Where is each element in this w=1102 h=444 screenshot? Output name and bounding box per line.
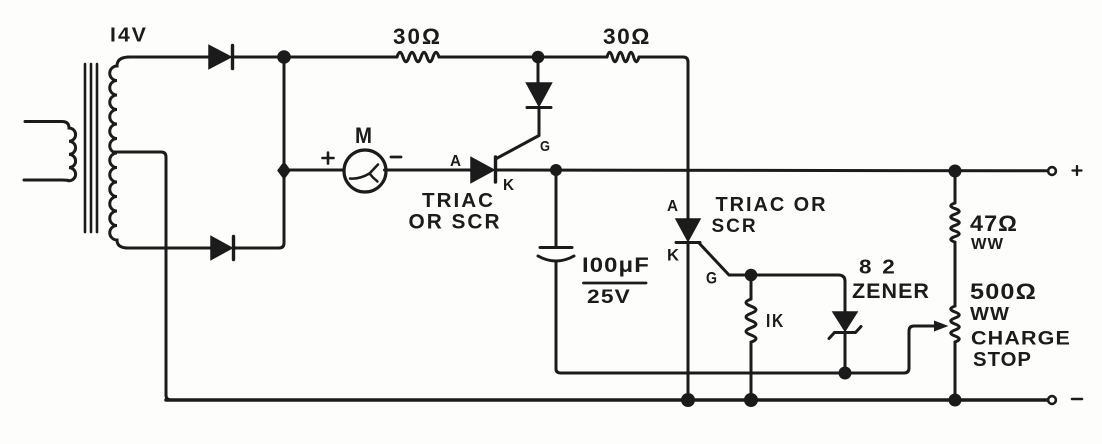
label G (SCR1 gate): [540, 138, 550, 155]
wire capacitor bottom to pot wiper: [556, 326, 934, 373]
label TRIAC OR SCR (SCR1): [409, 189, 502, 234]
resistor R4 47 ohm WW: [951, 171, 960, 306]
label K (SCR1 cathode): [503, 177, 514, 194]
svg-text:500Ω: 500Ω: [970, 279, 1037, 304]
junction node SCR2 cathode to rail: [681, 393, 695, 407]
svg-text:IK: IK: [766, 311, 785, 331]
fraction bar of capacitor label: [584, 282, 647, 285]
svg-text:ZENER: ZENER: [852, 280, 930, 303]
label 30 ohm (R1): [393, 24, 442, 49]
zener diode D4 8.2V: [829, 312, 861, 373]
junction node gate diode tap: [532, 51, 545, 64]
svg-text:K: K: [503, 177, 514, 194]
capacitor C1 100uF 25V: [538, 170, 574, 369]
wire secondary bottom lead to D2: [126, 247, 211, 250]
pot wiper arrow: [935, 321, 948, 331]
svg-text:OR SCR: OR SCR: [409, 211, 502, 234]
junction node 1K to rail: [744, 393, 758, 407]
transformer core: [85, 64, 97, 232]
label A (SCR2 anode): [667, 198, 678, 215]
potentiometer R5 500 ohm WW charge stop: [951, 306, 960, 400]
svg-text:M: M: [355, 123, 372, 148]
junction node top of bridge: [277, 50, 291, 64]
label G (SCR2 gate): [706, 269, 717, 288]
junction node right rail top: [949, 165, 962, 178]
label 14V: [110, 24, 148, 47]
resistor R3 1K: [746, 275, 756, 400]
label + (meter): [323, 153, 334, 164]
junction node pot to rail: [949, 394, 962, 407]
svg-text:I4V: I4V: [110, 24, 148, 47]
resistor R1 30 ohm: [397, 52, 439, 62]
terminal - output: [1048, 396, 1056, 404]
junction node zener to wiper line: [839, 367, 852, 380]
wire meter to SCR1 anode: [385, 169, 472, 172]
gate diode D3: [527, 57, 552, 136]
transformer T1 secondary winding: [110, 57, 130, 248]
wire SCR1 cathode to right rail: [497, 169, 1048, 173]
SCR2 triac-or-scr: [676, 219, 745, 400]
svg-text:A: A: [667, 198, 678, 215]
wire gate node to zener: [745, 275, 845, 312]
junction diamond at bridge output: [279, 163, 290, 178]
wire center tap down to bottom rail: [114, 152, 171, 400]
label K (SCR2 cathode): [667, 246, 680, 265]
label 500 ohm WW CHARGE STOP: [970, 279, 1071, 371]
bottom rail: [166, 398, 1048, 402]
svg-text:G: G: [540, 138, 550, 155]
svg-text:CHARGE: CHARGE: [971, 329, 1071, 350]
wire top rail D1 to R1: [234, 56, 397, 59]
label A (SCR1 anode): [450, 153, 461, 170]
label - output: [1072, 398, 1082, 401]
transformer T1 primary winding: [24, 122, 76, 181]
terminal + output: [1048, 167, 1056, 175]
svg-text:A: A: [450, 153, 461, 170]
svg-text:30Ω: 30Ω: [393, 24, 442, 49]
svg-text:TRIAC OR: TRIAC OR: [716, 193, 828, 216]
svg-text:47Ω: 47Ω: [970, 211, 1018, 236]
label TRIAC OR SCR (SCR2): [712, 193, 828, 237]
label - (meter): [391, 156, 401, 159]
svg-text:G: G: [706, 269, 717, 288]
junction node gate of SCR2: [745, 269, 758, 282]
wire left bridge vertical: [234, 57, 284, 248]
svg-text:25V: 25V: [587, 287, 631, 308]
svg-text:WW: WW: [970, 303, 1010, 324]
SCR1 triac-or-scr: [471, 136, 539, 183]
svg-text:SCR: SCR: [712, 215, 758, 237]
meter M: [344, 150, 386, 192]
svg-text:8 2: 8 2: [859, 257, 897, 279]
label 47 ohm WW: [970, 211, 1018, 253]
svg-text:K: K: [667, 246, 680, 265]
rectifier diode D1: [209, 46, 233, 69]
label 30 ohm (R2): [603, 24, 651, 49]
svg-text:WW: WW: [971, 236, 1004, 253]
wire bridge output to meter: [284, 169, 344, 172]
svg-text:30Ω: 30Ω: [603, 24, 651, 49]
wire top rail R1 to R2: [439, 56, 607, 59]
wire top rail left: [128, 56, 209, 59]
svg-text:TRIAC: TRIAC: [422, 189, 495, 212]
label 100uF / 25V: [582, 254, 650, 308]
label M: [355, 123, 372, 148]
rectifier diode D2: [211, 237, 234, 260]
wire top rail R2 to corner and down to SCR2 anode: [639, 57, 688, 219]
label 8 2 ZENER: [852, 257, 930, 304]
svg-text:I00μF: I00μF: [582, 254, 650, 277]
label + output: [1073, 166, 1082, 175]
resistor R2 30 ohm: [607, 52, 639, 62]
label 1K: [766, 311, 785, 331]
svg-text:STOP: STOP: [973, 349, 1032, 371]
junction node capacitor tap: [550, 164, 562, 176]
